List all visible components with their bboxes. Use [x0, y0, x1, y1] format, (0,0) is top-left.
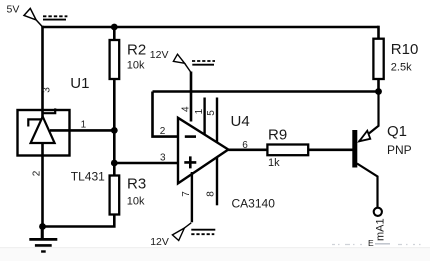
svg-text:10k: 10k: [127, 196, 145, 208]
svg-text:2: 2: [160, 126, 166, 137]
op-amp minus input mark: [185, 135, 196, 138]
transistor Q1 emitter arrow: [359, 131, 370, 142]
wire R2-R3 branch: [113, 27, 116, 215]
svg-text:2: 2: [31, 170, 42, 176]
svg-text:6: 6: [242, 140, 248, 151]
op-amp U4 body: [178, 118, 228, 184]
op-amp pin7 stub: [191, 172, 193, 222]
transistor Q1 base bar: [352, 130, 357, 168]
wire 12V supply to op-amp pin4: [190, 72, 193, 122]
component U1 box: [18, 110, 70, 156]
ground symbol: [29, 227, 57, 252]
svg-text:4: 4: [181, 106, 192, 112]
wire R10 bottom lead to node: [377, 79, 380, 92]
junction dot ground rail: [39, 223, 46, 230]
svg-text:U4: U4: [231, 113, 250, 130]
svg-text:10k: 10k: [127, 59, 145, 71]
junction dot R2 top: [111, 24, 118, 31]
svg-text:U1: U1: [70, 75, 89, 92]
junction dot pin3: [111, 160, 118, 167]
wire branch to op-amp pin3: [114, 162, 178, 165]
svg-text:1: 1: [194, 108, 205, 114]
svg-text:R3: R3: [127, 176, 146, 193]
watermark fragment bottom right: [332, 244, 421, 246]
op-amp plus input mark: [184, 156, 196, 168]
wire R3 bottom to ground rail: [42, 214, 114, 227]
op-amp pin8 stub: [216, 157, 218, 205]
TL431 symbol cathode bar: [28, 108, 55, 126]
svg-text:5V: 5V: [7, 4, 20, 16]
svg-text:2.5k: 2.5k: [391, 61, 412, 73]
meter terminal mA1: [374, 208, 382, 216]
svg-text:R9: R9: [268, 127, 287, 144]
svg-text:3: 3: [41, 87, 52, 93]
svg-text:12V: 12V: [150, 49, 169, 61]
resistor R9: [267, 145, 308, 156]
wire emitter riser: [359, 92, 379, 142]
svg-text:5: 5: [206, 110, 217, 116]
op-amp pin5 stub: [216, 98, 218, 143]
svg-text:8: 8: [205, 191, 216, 197]
svg-text:Q1: Q1: [387, 123, 407, 140]
wire R9 to Q1 base: [308, 149, 353, 152]
wire op-amp pin6 output: [228, 149, 267, 152]
junction dot pin1: [111, 127, 118, 134]
svg-text:7: 7: [181, 191, 192, 197]
wire collector to meter: [357, 164, 378, 209]
resistor R10: [373, 39, 383, 79]
svg-text:R2: R2: [127, 42, 146, 59]
power 12V top symbol: [173, 54, 215, 72]
wire feedback bus to emitter node: [153, 90, 379, 93]
resistor R3: [110, 176, 120, 215]
wire left rail: [41, 26, 44, 239]
resistor R2: [110, 40, 120, 79]
power 12V bottom symbol: [172, 228, 215, 241]
svg-text:1: 1: [81, 119, 87, 130]
svg-text:mA1: mA1: [375, 218, 387, 241]
svg-text:R10: R10: [391, 41, 419, 58]
wire op-amp pin2 feedback riser: [153, 92, 179, 137]
TL431 symbol triangle: [31, 117, 55, 143]
junction dot feedback emitter node: [375, 88, 382, 95]
power 5V symbol: [24, 8, 67, 27]
svg-text:PNP: PNP: [387, 143, 412, 157]
svg-text:CA3140: CA3140: [232, 196, 276, 210]
svg-text:E: E: [368, 238, 374, 248]
svg-text:1k: 1k: [268, 157, 280, 169]
svg-text:3: 3: [160, 152, 166, 163]
wire top bus 5V to R10: [42, 26, 379, 29]
op-amp pin1 stub: [203, 98, 205, 135]
wire U1 pin1 to branch: [50, 129, 114, 132]
wire R10 top lead: [377, 26, 380, 39]
lead pin7 to 12V symbol: [184, 223, 191, 228]
svg-text:TL431: TL431: [71, 169, 105, 183]
svg-text:12V: 12V: [150, 236, 169, 248]
